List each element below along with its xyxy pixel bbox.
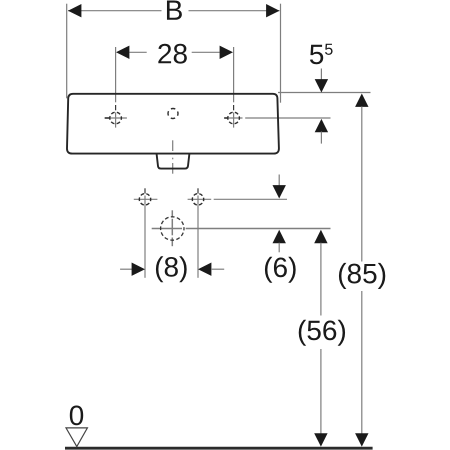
dimension (6): down arrow tail bbox=[278, 175, 280, 188]
water supply right: vertical extension line down bbox=[197, 196, 199, 278]
dimension 28: left arrowhead bbox=[116, 46, 129, 59]
tap hole left: dashed circle bbox=[110, 112, 122, 124]
dimension (56): vertical line lower part bbox=[320, 349, 322, 434]
dimension (56): down arrowhead bbox=[314, 433, 327, 446]
dimension 28: dimension line bbox=[130, 51, 220, 53]
washbasin drain cup bbox=[157, 154, 190, 169]
reference line at basin top (rim level) bbox=[278, 92, 371, 94]
water supply right: centreline dash above bbox=[197, 188, 199, 193]
washbasin body outline bbox=[67, 94, 279, 154]
dimension 5^5: bottom arrow tail bbox=[320, 132, 322, 144]
dimension B: extension line left bbox=[66, 4, 68, 99]
dimension 5^5: top arrow tail bbox=[320, 69, 322, 83]
label (56) bbox=[299, 320, 345, 346]
water supply right: horizontal centreline extending right bbox=[188, 198, 287, 200]
drain: vertical centreline bbox=[171, 210, 173, 246]
cup centreline (dash-dot) bbox=[172, 140, 174, 173]
dimension B: right arrowhead bbox=[266, 4, 279, 17]
dimension (6): down arrowhead bbox=[273, 185, 286, 198]
water supply left: vertical extension line down bbox=[144, 196, 146, 278]
dimension (6): up arrow tail bbox=[278, 243, 280, 253]
label (6) bbox=[265, 257, 296, 283]
water supply left: centreline dash above bbox=[144, 188, 146, 193]
label (8) bbox=[156, 256, 187, 282]
datum zero triangle bbox=[66, 428, 87, 447]
water supply left: dashed circle bbox=[139, 194, 150, 205]
floor line bbox=[65, 447, 373, 450]
dimension (8): left arrow tail bbox=[120, 268, 133, 270]
label 28 bbox=[158, 44, 187, 64]
water supply left: horizontal centreline bbox=[134, 198, 158, 200]
dimension (8): left arrowhead bbox=[132, 263, 145, 276]
dimension (56): vertical line upper part bbox=[320, 243, 322, 316]
label 0 bbox=[70, 405, 83, 425]
dimension B: dimension line bbox=[68, 10, 280, 12]
dimension 5^5: down arrowhead bbox=[315, 79, 328, 92]
dimension B: left arrowhead bbox=[68, 4, 81, 17]
dimension (8): right arrow tail bbox=[211, 268, 224, 270]
dimension (85): up arrowhead bbox=[355, 94, 368, 107]
dimension (85): down arrowhead bbox=[355, 433, 368, 446]
dimension (8): right arrowhead bbox=[198, 263, 211, 276]
dimension (6): up arrowhead bbox=[273, 230, 286, 243]
dimension (56): up arrowhead bbox=[314, 230, 327, 243]
dimension 5^5: up arrowhead bbox=[315, 119, 328, 132]
dimension (85): vertical line lower part bbox=[361, 291, 363, 434]
centre tap hole: small dashed circle bbox=[168, 109, 178, 119]
drain: dashed circle bbox=[161, 217, 184, 240]
tap hole left: horizontal centreline bbox=[104, 117, 127, 119]
water supply right: dashed circle bbox=[192, 194, 203, 205]
drain: horizontal centreline bbox=[152, 228, 331, 230]
tap hole left: vertical extension from 28 dim bbox=[115, 47, 117, 128]
dimension B: extension line right bbox=[280, 4, 282, 103]
label 5^5 bbox=[310, 44, 333, 65]
label (85) bbox=[339, 263, 385, 289]
tap hole right: vertical extension from 28 dim bbox=[233, 47, 235, 128]
tap hole right: dashed circle bbox=[228, 112, 240, 124]
dimension (85): vertical line upper part bbox=[361, 106, 363, 261]
dimension 28: right arrowhead bbox=[220, 46, 233, 59]
label B bbox=[167, 1, 182, 20]
tap hole axis line to the right bbox=[224, 117, 330, 119]
